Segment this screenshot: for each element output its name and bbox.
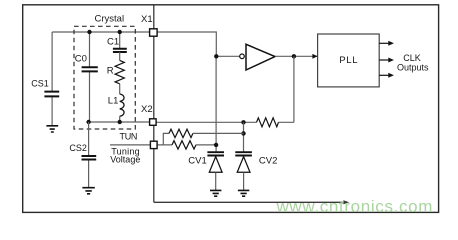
wire TUN to resistors bbox=[157, 133, 172, 145]
junction dot C0 bottom CS2 bbox=[86, 120, 90, 124]
junction dot CV1 tune bbox=[214, 143, 218, 147]
wire chip left edge bbox=[153, 6, 155, 203]
resistor tune upper R1 bbox=[169, 129, 244, 137]
PLL block U2 bbox=[318, 34, 380, 87]
wire TUN stub bbox=[110, 144, 150, 146]
ground below CV1 bbox=[210, 190, 221, 196]
wire CV2 to ground bbox=[243, 172, 245, 190]
wire feedback from inverter output bbox=[293, 56, 295, 122]
capacitor CS1 bbox=[31, 79, 59, 97]
ground below CS1 bbox=[46, 126, 58, 132]
terminal TUN bbox=[150, 141, 157, 148]
capacitor C1 bbox=[107, 36, 127, 52]
svg-text:Crystal: Crystal bbox=[95, 13, 125, 24]
svg-text:R: R bbox=[107, 65, 114, 76]
PLL output arrow 1 bbox=[379, 41, 394, 46]
terminal X2 bbox=[141, 104, 156, 125]
wire C1 to R bbox=[119, 52, 121, 60]
wire X2 rail bbox=[156, 121, 294, 123]
wire chip bottom edge bbox=[154, 201, 343, 203]
ground below CV2 bbox=[238, 190, 249, 196]
svg-text:C1: C1 bbox=[107, 36, 119, 47]
junction dot X2 CV2 bbox=[241, 120, 245, 124]
junction dot C1 top bbox=[118, 30, 122, 34]
junction dot inverter output bbox=[292, 54, 296, 58]
svg-text:X1: X1 bbox=[141, 14, 153, 25]
svg-text:C0: C0 bbox=[75, 54, 87, 65]
PLL output arrow 2 bbox=[379, 58, 394, 63]
svg-text:Outputs: Outputs bbox=[397, 62, 429, 72]
label CLK Outputs bbox=[397, 53, 429, 72]
wire L1 to crystal bottom bbox=[119, 116, 121, 122]
varactor CV1 bbox=[188, 152, 224, 172]
wire top rail X1 net bbox=[52, 31, 149, 33]
svg-text:TUN: TUN bbox=[120, 132, 138, 142]
capacitor C0 bbox=[75, 54, 98, 72]
arrowhead chip bottom edge bbox=[343, 200, 349, 204]
arrowhead into PLL bbox=[312, 54, 317, 59]
wire CV1 branch from inverter input node bbox=[215, 56, 217, 152]
inverter U1 bbox=[240, 44, 275, 70]
wire inverter output bbox=[275, 55, 317, 57]
varactor CV2 bbox=[235, 152, 277, 172]
crystal dashed box bbox=[74, 13, 135, 129]
junction dot L1 bottom bbox=[118, 120, 122, 124]
svg-text:PLL: PLL bbox=[339, 55, 358, 66]
svg-text:www.cntronics.com: www.cntronics.com bbox=[276, 197, 434, 216]
resistor feedback bbox=[257, 118, 279, 127]
ground below CS2 bbox=[82, 188, 94, 194]
inductor L1 bbox=[108, 94, 124, 116]
svg-text:CV1: CV1 bbox=[188, 155, 206, 166]
wire CV2 branch bbox=[243, 122, 245, 152]
resistor R bbox=[107, 60, 125, 83]
wire CS2 branch bbox=[88, 122, 90, 188]
svg-text:Voltage: Voltage bbox=[110, 155, 140, 165]
terminal X1 bbox=[141, 14, 157, 36]
capacitor CS2 bbox=[69, 143, 96, 160]
junction dot C0 top bbox=[87, 30, 91, 34]
wire X1 to inverter input bbox=[157, 32, 216, 56]
wire inverter input bbox=[216, 55, 239, 57]
svg-text:CS1: CS1 bbox=[31, 79, 49, 89]
svg-text:CV2: CV2 bbox=[259, 155, 277, 166]
label Tuning Voltage bbox=[110, 147, 140, 165]
wire C0 branch bbox=[89, 32, 91, 122]
svg-text:L1: L1 bbox=[108, 95, 119, 106]
wire crystal bottom rail to X2 bbox=[89, 121, 151, 123]
wire CS1 branch bbox=[51, 32, 53, 126]
svg-text:CS2: CS2 bbox=[69, 143, 87, 153]
svg-text:X2: X2 bbox=[141, 104, 153, 115]
wire CV1 to ground bbox=[215, 172, 217, 190]
junction dot inverter input bbox=[214, 54, 218, 58]
wire C1 branch bbox=[119, 32, 121, 49]
wire R to L1 bbox=[119, 84, 121, 94]
resistor tune lower R2 bbox=[172, 141, 216, 149]
junction dot CV2 tune bbox=[241, 131, 245, 135]
PLL output arrow 3 bbox=[379, 73, 394, 78]
